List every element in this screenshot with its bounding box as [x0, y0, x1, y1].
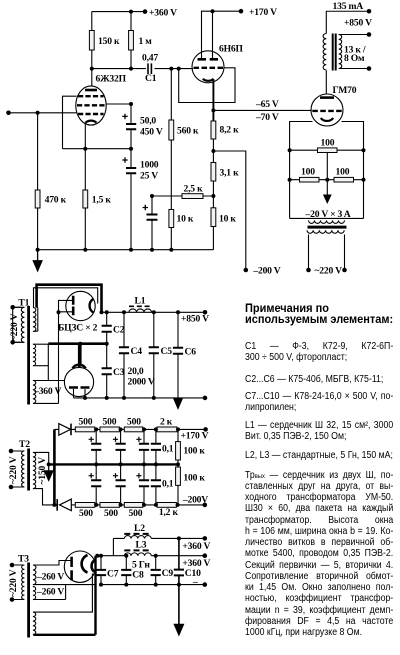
resistor 100k upper — [176, 442, 181, 460]
wire kenotron1 filament lead thin — [34, 288, 98, 308]
transformer T2 primary coil — [21, 451, 24, 487]
svg-text:+360 V: +360 V — [182, 541, 210, 552]
wire output transformer primary top — [326, 11, 369, 33]
tube 6Zh32P envelope — [76, 86, 106, 125]
svg-text:+850 V: +850 V — [181, 313, 209, 324]
tube 6Zh32P grids dashed — [77, 96, 105, 114]
wire B+ bus around L1 — [102, 311, 206, 313]
wire g3 bracket — [63, 96, 77, 149]
svg-text:8,2 к: 8,2 к — [220, 125, 240, 136]
wire GM70 filament left — [290, 122, 313, 219]
junction dots T2 — [9, 427, 208, 507]
svg-text:С5: С5 — [161, 346, 173, 357]
resistor pot 100 top — [318, 148, 338, 153]
resistor 2k — [157, 427, 177, 432]
svg-text:100 к: 100 к — [183, 473, 205, 484]
svg-text:L3: L3 — [136, 540, 147, 551]
wire C8 column — [125, 556, 127, 585]
wire C6 column — [177, 312, 179, 398]
svg-text:–360 V: –360 V — [33, 386, 61, 397]
plus sign 1000uF — [122, 157, 127, 162]
wire thick mid bus -360 cathode2 — [48, 344, 106, 367]
plus sign 50uF — [122, 114, 127, 119]
wire GM70 filament right — [342, 122, 364, 219]
wire input grid leak column — [37, 113, 39, 250]
wire cap column 3 — [143, 429, 145, 505]
wire rail2 after L3 — [151, 555, 205, 557]
kenotron U2 envelope — [64, 367, 93, 396]
tube GM70 anode — [320, 96, 334, 99]
svg-text:C3: C3 — [113, 367, 125, 378]
svg-text:0,1: 0,1 — [162, 479, 174, 490]
kenotron U2 anode bars — [69, 386, 90, 389]
inductor L1 core dashes — [129, 305, 152, 307]
svg-text:C2: C2 — [113, 324, 125, 335]
ground arrow T2 center tap — [45, 466, 53, 480]
ground arrow input — [33, 250, 42, 271]
wire T3 primary terminals — [12, 565, 21, 600]
wire C1 to 6N6P grid — [155, 68, 194, 70]
wire 560k column — [170, 69, 172, 250]
capacitors electrolytic bottom row — [91, 480, 149, 486]
inductor L2 coil — [124, 536, 151, 539]
wire top rail +170 — [95, 428, 206, 430]
wire film cap column — [155, 429, 157, 505]
inductor L1 coil — [129, 309, 152, 312]
wire 1.5k column — [84, 149, 86, 250]
capacitor cathode bypass — [147, 215, 158, 220]
svg-text:T1: T1 — [18, 298, 29, 309]
resistor 500 top2 — [100, 427, 119, 432]
svg-text:10 к: 10 к — [219, 213, 236, 224]
resistor 560k — [169, 120, 174, 140]
wire C2C3 column — [106, 312, 108, 398]
ground arrow PSU — [174, 398, 183, 408]
resistor 470k — [35, 190, 40, 208]
pot wiper arrow — [323, 195, 332, 205]
wire bottom bus -360 — [74, 397, 206, 399]
diode D1 top — [59, 424, 71, 436]
svg-text:0,47: 0,47 — [142, 52, 158, 63]
wire bypass cap column — [151, 196, 153, 250]
svg-text:2000 V: 2000 V — [128, 376, 155, 387]
capacitor 50uF 450V — [126, 124, 136, 129]
capacitor C9 — [151, 570, 161, 575]
wire C4 column — [123, 312, 125, 398]
resistor 100k lower — [176, 467, 181, 485]
wire WC top to cathode — [35, 574, 93, 613]
transformer T1 core — [27, 306, 30, 405]
tube 6N6P grid dashed — [194, 67, 224, 69]
resistor 10k right — [211, 208, 216, 227]
svg-text:50,0: 50,0 — [140, 115, 156, 126]
svg-text:C7: C7 — [107, 568, 119, 579]
svg-text:T2: T2 — [19, 439, 30, 450]
wire cap column 2 — [120, 429, 122, 505]
wire 8.2k to 3.1k — [212, 139, 214, 250]
wire output transformer secondary — [339, 35, 369, 69]
wire 6N6P grid box — [179, 68, 235, 103]
wire 6N6P anodes to +170 — [202, 11, 242, 58]
heater transformer secondary coil — [309, 220, 345, 223]
transformer T3 winding B — [33, 587, 36, 600]
transformer T3 core — [27, 563, 30, 638]
kenotron U1 anode bars — [72, 296, 75, 316]
wire cathode bus — [63, 148, 132, 150]
resistor R 150k — [89, 31, 94, 51]
inductor L2 core dashes — [124, 533, 151, 535]
svg-text:–: – — [192, 577, 198, 588]
svg-text:C4: C4 — [131, 346, 143, 357]
transformer T3 winding A — [33, 565, 36, 585]
capacitor C2 — [102, 326, 112, 332]
wire pot row2 — [290, 179, 364, 181]
svg-text:~220 V: ~220 V — [8, 569, 19, 597]
svg-text:C6: C6 — [185, 346, 197, 357]
svg-text:+360 V: +360 V — [149, 7, 177, 18]
svg-text:6Н6П: 6Н6П — [219, 43, 243, 54]
transformer T2 core — [27, 449, 30, 491]
tube GM70 grid dashed — [312, 110, 341, 112]
wire T2 secondary top to ground — [35, 452, 49, 464]
tube 6Zh32P anode — [85, 89, 97, 92]
svg-text:C8: C8 — [132, 569, 144, 580]
svg-text:~220 V: ~220 V — [8, 456, 19, 484]
svg-text:470 к: 470 к — [45, 195, 67, 206]
resistor 100 left — [300, 177, 320, 182]
T1 secondary W3 coil — [33, 381, 36, 404]
kenotron U3 envelope — [64, 551, 95, 582]
wire GM70 anode — [325, 71, 327, 95]
capacitors electrolytic top row — [91, 444, 149, 450]
wire pot row1 — [290, 149, 364, 151]
inductor L3 coil — [124, 553, 151, 556]
capacitor C4 — [119, 347, 129, 353]
svg-text:10 к: 10 к — [177, 213, 194, 224]
wire T2 secondary bottom — [35, 489, 57, 505]
capacitor C5 — [149, 347, 159, 353]
svg-text:20,0: 20,0 — [128, 366, 144, 377]
kenotron U3 cathode arcs — [82, 555, 88, 573]
wire thick kenotron1 cathode feed — [37, 285, 102, 313]
tube 6Zh32P cathode arc — [86, 121, 97, 123]
wire WA bottom bus B- — [35, 584, 205, 586]
inductor L3 core dashes — [124, 549, 151, 551]
wire WB join vertical — [35, 585, 66, 600]
T1 secondary W2 coil — [33, 344, 36, 366]
wire 150k column — [91, 12, 93, 69]
svg-text:T3: T3 — [18, 554, 29, 565]
diode D2 bottom — [60, 499, 72, 511]
svg-text:150 к: 150 к — [98, 36, 120, 47]
svg-text:3,1 к: 3,1 к — [220, 168, 240, 179]
svg-text:500: 500 — [129, 508, 143, 519]
ground arrow C10 — [175, 585, 184, 635]
resistor 500 top1 — [75, 427, 95, 432]
wire W3 top to tube2 — [36, 344, 65, 381]
wire W2 top to mid bus — [36, 343, 49, 345]
wire WA top to anode — [35, 561, 71, 566]
svg-text:1000: 1000 — [140, 159, 159, 170]
wire rail1 +360 — [113, 537, 204, 539]
wire thick AC feed vertical — [53, 429, 56, 505]
tube 6N6P cathode arc — [203, 79, 214, 81]
svg-text:2,5 к: 2,5 к — [184, 183, 204, 194]
transformer T3 primary coil — [21, 565, 24, 599]
plus signs T2 caps — [89, 437, 142, 479]
capacitor C8 — [121, 570, 131, 575]
plus sign bypass — [143, 205, 148, 210]
wire T2 primary terminals — [11, 451, 21, 487]
capacitor C6 — [173, 348, 183, 354]
wire top rail +360V — [92, 11, 145, 13]
capacitor 1000uF 25V — [126, 168, 136, 173]
wire kenotron1 anode bracket — [59, 300, 73, 311]
wire -200V branch — [213, 151, 245, 270]
transformer T3 winding C — [33, 612, 36, 635]
svg-text:~220 V: ~220 V — [9, 313, 20, 341]
output transformer secondary coil — [339, 35, 342, 69]
svg-text:C9: C9 — [162, 568, 174, 579]
wire kenotron3 cathode thick — [34, 556, 96, 635]
wire C5 column — [153, 312, 155, 398]
svg-text:~150 V: ~150 V — [37, 457, 48, 485]
svg-text:+170 V: +170 V — [181, 430, 209, 441]
output transformer Tr primary coil — [323, 34, 326, 70]
resistor 500 bot1 — [75, 503, 95, 508]
wire T1 primary terminals — [13, 307, 21, 342]
svg-text:25 V: 25 V — [140, 171, 158, 182]
resistor 500 bot2 — [100, 503, 119, 508]
wire pot wiper — [326, 153, 328, 196]
resistor 8.2k — [211, 121, 216, 139]
svg-text:–200V: –200V — [182, 494, 208, 505]
capacitor C3 — [102, 368, 112, 374]
svg-text:500: 500 — [127, 417, 141, 428]
kenotron U2 cathode arc top — [73, 365, 86, 369]
wire rail1 tee — [112, 538, 114, 555]
tube 6N6P envelope — [192, 51, 224, 83]
junction dots T3 — [10, 536, 207, 602]
wire right column 100k — [177, 429, 179, 505]
wire 6N6P cathode — [212, 79, 214, 121]
tube GM70 envelope — [311, 94, 343, 126]
wire heater transformer legs — [309, 235, 345, 270]
notes column — [245, 0, 395, 655]
resistor 10k left — [169, 210, 174, 228]
capacitor C10 — [174, 570, 184, 576]
T1 secondary W1 coil — [33, 308, 36, 332]
T1 primary coil — [21, 307, 24, 342]
svg-text:БЦЗС × 2: БЦЗС × 2 — [58, 322, 98, 333]
resistor 2.5k horizontal — [182, 194, 203, 199]
transformer T2 secondary coil — [33, 452, 36, 488]
svg-text:1 м: 1 м — [139, 36, 153, 47]
wire heater box bottom — [290, 217, 364, 219]
svg-text:560 к: 560 к — [177, 126, 199, 137]
svg-text:100 к: 100 к — [183, 445, 205, 456]
wire g2 to cap column — [106, 103, 131, 105]
svg-text:1,5 к: 1,5 к — [92, 195, 112, 206]
kenotron U2 cathode feed thick — [78, 344, 81, 368]
wire top diode to R — [54, 428, 75, 430]
svg-text:L2: L2 — [134, 523, 145, 534]
resistor 1.5k — [83, 190, 88, 208]
resistor 500 top3 — [124, 427, 143, 432]
wire bottom diode to R — [71, 504, 75, 506]
wire 1000uF column — [130, 149, 132, 250]
svg-text:500: 500 — [79, 417, 93, 428]
wire cathode 6Zh32P — [84, 123, 86, 149]
wire 2.5k row — [152, 195, 213, 197]
resistor R 1M — [129, 31, 134, 51]
kenotron U1 cathode arc — [90, 299, 94, 312]
capacitor film 0.1 bottom — [151, 480, 161, 486]
svg-text:2 к: 2 к — [160, 417, 173, 428]
svg-text:L1: L1 — [135, 296, 146, 307]
wire cathode rail2 — [96, 555, 125, 557]
svg-text:450 V: 450 V — [140, 127, 163, 138]
svg-text:500: 500 — [79, 508, 93, 519]
tube 6N6P anodes — [198, 58, 219, 61]
wire C7 column — [100, 556, 102, 585]
svg-text:+360 V: +360 V — [182, 558, 210, 569]
junction dots PSU1 — [10, 305, 207, 400]
kenotron U3 anode bars — [70, 557, 73, 580]
wire 1M column — [130, 12, 132, 69]
svg-text:C1: C1 — [145, 73, 157, 84]
wire input — [9, 112, 77, 114]
wire 50uF column — [130, 104, 132, 149]
heater transformer core bar — [308, 226, 347, 229]
wire thick mid ground bus — [49, 463, 178, 465]
wire cap column 1 — [95, 429, 97, 505]
wire bottom rail -200 — [95, 504, 205, 506]
wire -65V grid line — [213, 109, 311, 111]
junction dots top section — [6, 9, 371, 272]
wire kenotron2 anode legs — [74, 389, 86, 398]
resistor 1.2k — [157, 503, 176, 508]
output transformer core — [333, 34, 336, 71]
tube GM70 filament arc — [321, 118, 333, 121]
capacitor C7 — [96, 570, 106, 575]
capacitor C1 0.47 — [148, 63, 151, 74]
wire ground bus — [38, 249, 214, 251]
wire anode feed from W2 — [36, 312, 59, 403]
wire W2 bottom lead — [36, 365, 49, 367]
resistor 500 bot3 — [124, 503, 143, 508]
T1 secondary W1 right lead — [34, 308, 37, 332]
svg-text:500: 500 — [103, 417, 117, 428]
heater transformer primary coil — [307, 230, 344, 233]
capacitor film 0.1 top — [151, 444, 161, 450]
svg-text:6Ж32П: 6Ж32П — [96, 74, 127, 85]
wire C9 column — [155, 556, 157, 585]
svg-text:–260 V: –260 V — [36, 571, 64, 582]
svg-text:0,1: 0,1 — [162, 444, 174, 455]
node A anode wire — [92, 69, 146, 87]
svg-text:1,2 к: 1,2 к — [159, 507, 179, 518]
svg-text:500: 500 — [104, 508, 118, 519]
wire C10 column thick — [178, 538, 180, 584]
resistor 3.1k — [211, 163, 216, 182]
svg-text:–260 V: –260 V — [36, 586, 64, 597]
kenotron U1 envelope — [66, 291, 95, 320]
resistor 100 right — [334, 177, 354, 182]
